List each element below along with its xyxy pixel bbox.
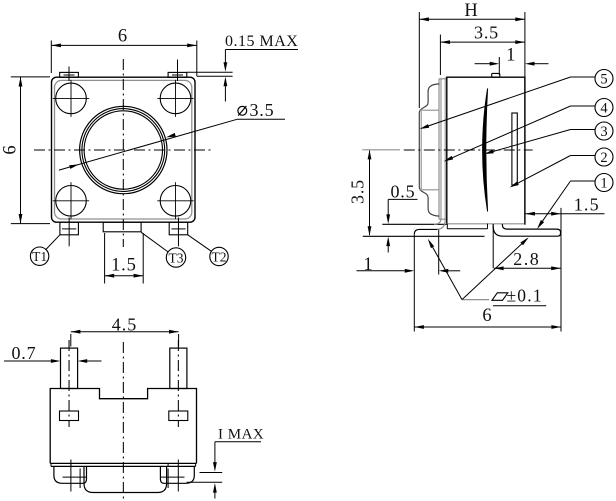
svg-text:T2: T2 (212, 250, 227, 265)
dimension 6 left (1, 77, 51, 224)
top view vertical centerline (122, 59, 124, 247)
front view left foot crosshair (63, 460, 87, 492)
side view horizontal centerline (404, 149, 533, 151)
dimension H (419, 1, 525, 224)
svg-text:3.5: 3.5 (348, 179, 368, 204)
annotation 0.15 MAX (187, 33, 299, 102)
callout circle 1 (537, 174, 613, 230)
label T3 (141, 232, 186, 267)
svg-text:0.15 MAX: 0.15 MAX (225, 33, 298, 50)
dimension 3.5 horizontal (440, 23, 525, 75)
dimension 6 top (51, 26, 197, 76)
side view top tab (492, 73, 500, 77)
svg-text:±0.1: ±0.1 (507, 285, 543, 305)
annotation I MAX (187, 427, 265, 499)
top view corner circle top-left (53, 80, 89, 117)
top view bottom-left pin T1 (60, 218, 79, 247)
front view right post (170, 348, 187, 388)
top view button circles (80, 106, 167, 193)
front view right post centerline (177, 340, 179, 427)
callout circle 5 (420, 70, 614, 130)
front view right foot crosshair (161, 460, 185, 492)
dimension 1.5 right (525, 195, 604, 332)
svg-text:2.8: 2.8 (513, 249, 540, 269)
front view left post (61, 348, 78, 388)
top view bottom-right pin T2 (169, 218, 188, 247)
side view body outline (447, 77, 525, 224)
svg-text:6: 6 (482, 306, 491, 326)
side view center standoff recess (447, 224, 487, 229)
svg-text:1.5: 1.5 (574, 195, 600, 215)
front view left hole (60, 411, 79, 421)
svg-text:6: 6 (1, 145, 21, 154)
front view left foot (54, 466, 87, 483)
label T1 (30, 235, 60, 266)
dimension 1.5 bottom (105, 233, 144, 284)
svg-text:1: 1 (506, 45, 515, 65)
annotation parallelism 0.1 (428, 237, 546, 305)
side view seating line (363, 235, 485, 237)
front view base plate (51, 463, 196, 466)
top view horizontal centerline (34, 149, 213, 151)
svg-text:5: 5 (600, 71, 607, 87)
callout circle 2 (510, 148, 614, 188)
dimension 0.7 (4, 343, 102, 363)
side view right lead and foot (493, 224, 560, 268)
svg-text:2: 2 (600, 150, 607, 166)
front view vertical centerline (122, 342, 124, 499)
annotation diameter 3.5 (59, 100, 285, 170)
svg-text:1.5: 1.5 (111, 255, 137, 275)
dimension 3.5 vertical (348, 150, 400, 236)
svg-text:3.5: 3.5 (250, 100, 275, 120)
svg-text:T1: T1 (32, 249, 47, 264)
side view left lead foot (382, 219, 447, 275)
svg-text:3.5: 3.5 (474, 23, 499, 43)
front view body outline (50, 389, 196, 464)
top view top-right weld tab (168, 60, 187, 82)
svg-text:4: 4 (600, 100, 608, 116)
svg-text:1: 1 (600, 175, 607, 191)
top view bottom center tab T3 (103, 222, 141, 232)
svg-text:1: 1 (363, 255, 372, 275)
dimension 6 bottom (414, 306, 561, 329)
dimension 1 bottom (357, 234, 461, 331)
svg-text:I MAX: I MAX (218, 427, 264, 443)
svg-text:4.5: 4.5 (112, 314, 138, 334)
dimension 2.8 (494, 249, 561, 270)
top view top-left weld tab (60, 67, 79, 82)
svg-text:6: 6 (118, 26, 127, 46)
svg-text:0.5: 0.5 (391, 181, 416, 201)
label T2 (188, 235, 229, 266)
callout circle 3 (484, 122, 613, 154)
front view right hole (169, 411, 188, 421)
top view body outline (52, 77, 196, 222)
top view corner circle bottom-right (157, 182, 193, 219)
side view inner contact strip (512, 113, 517, 185)
dimension 4.5 (71, 314, 179, 346)
top view corner circle bottom-left (53, 182, 89, 219)
svg-text:T3: T3 (169, 251, 184, 266)
front view center tray (84, 466, 167, 492)
dimension 1 top (475, 45, 549, 75)
top view corner circle top-right (157, 80, 193, 117)
svg-text:3: 3 (600, 124, 607, 140)
top view inner cover contour (55, 80, 192, 219)
dimension 0.5 (386, 181, 417, 252)
side view dome contact (483, 89, 488, 212)
callout circle 4 (444, 99, 613, 162)
side view cover plate (439, 77, 447, 219)
svg-text:H: H (464, 1, 477, 21)
front view left post centerline (68, 340, 70, 427)
front view right foot (160, 466, 194, 483)
side view stem profile with bumps (419, 84, 439, 216)
svg-text:0.7: 0.7 (12, 343, 37, 363)
